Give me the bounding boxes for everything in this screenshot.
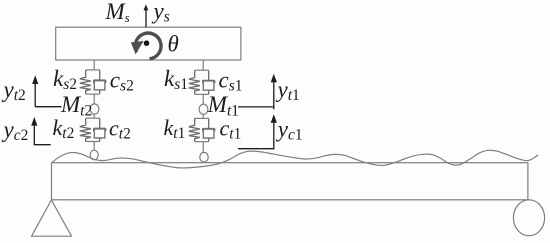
svg-text:Mt2: Mt2 <box>60 92 92 119</box>
svg-text:cs1: cs1 <box>219 67 243 94</box>
center dot of rotation <box>144 40 150 46</box>
svg-text:yt2: yt2 <box>2 77 26 104</box>
damper c_s1 <box>203 70 215 94</box>
bracket y_t1 <box>238 79 274 109</box>
spring k_s2 <box>80 70 91 94</box>
rotation arrowhead <box>131 41 144 55</box>
wire: top bar of unit k_t2/c_t2 <box>86 117 100 119</box>
svg-text:ct1: ct1 <box>220 116 242 143</box>
wire: top bar of unit k_s1/c_s1 <box>195 69 209 71</box>
svg-text:kt2: kt2 <box>53 115 75 142</box>
wire: rod node to lower unit <box>93 114 95 118</box>
spring k_s1 <box>189 70 200 94</box>
arrowhead y_c1 <box>271 114 277 123</box>
svg-text:ks1: ks1 <box>164 66 188 93</box>
damper c_t1 <box>203 118 215 141</box>
sprung mass body M_s <box>56 27 241 60</box>
arrowhead y_t2 <box>32 75 38 84</box>
beam (bridge deck) <box>52 163 528 200</box>
spring k_t2 <box>80 118 91 141</box>
wire: rod to mass node M_t1 <box>202 94 204 104</box>
svg-text:kt1: kt1 <box>164 115 186 142</box>
damper c_t2 <box>94 118 106 141</box>
contact wheel circle left <box>90 150 98 160</box>
wire: rod body to right suspension <box>202 60 204 70</box>
spring k_t1 <box>189 118 200 141</box>
bracket y_c1 <box>238 119 274 149</box>
svg-text:Ms: Ms <box>105 0 130 25</box>
pin support triangle <box>32 200 72 236</box>
bracket y_c2 <box>34 122 50 145</box>
svg-text:θ: θ <box>168 32 179 57</box>
wire: bottom bar of unit k_t2/c_t2 <box>86 141 100 143</box>
arrowhead y_c2 <box>31 117 37 126</box>
arrow y_s shaft <box>145 9 147 27</box>
damper c_s2 <box>94 70 106 94</box>
mass node M_t2 circle <box>90 104 99 114</box>
mass node M_t1 circle <box>199 104 208 114</box>
svg-text:yc1: yc1 <box>276 117 303 144</box>
svg-text:ks2: ks2 <box>53 66 77 93</box>
svg-text:ct2: ct2 <box>109 116 131 143</box>
svg-text:yt1: yt1 <box>276 77 300 104</box>
wire: top bar of unit k_s2/c_s2 <box>86 69 100 71</box>
wire: bottom bar of unit k_s2/c_s2 <box>86 93 100 95</box>
wire: rod body to left suspension <box>93 60 95 70</box>
svg-text:ys: ys <box>152 0 170 26</box>
contact wheel circle right <box>200 152 208 162</box>
wire: top bar of unit k_t1/c_t1 <box>195 117 209 119</box>
roller support circle <box>513 200 544 236</box>
arrowhead y_t1 <box>271 74 277 83</box>
wire: rod node to lower right unit <box>202 114 204 118</box>
bracket y_t2 <box>35 80 61 107</box>
road profile wavy line <box>52 150 538 168</box>
wire: rod to mass node M_t2 <box>93 94 95 104</box>
arrowhead y_s <box>144 4 149 10</box>
svg-text:cs2: cs2 <box>110 67 134 94</box>
wire: rod to left contact wheel <box>93 142 95 151</box>
svg-text:yc2: yc2 <box>2 117 29 144</box>
wire: bottom bar of unit k_t1/c_t1 <box>195 141 209 143</box>
rotation arrow theta <box>135 33 161 59</box>
wire: rod to right contact wheel <box>202 142 204 153</box>
wire: bottom bar of unit k_s1/c_s1 <box>195 93 209 95</box>
